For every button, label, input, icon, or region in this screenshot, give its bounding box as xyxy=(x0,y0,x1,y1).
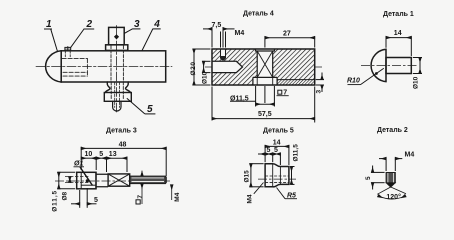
dim 5 left xyxy=(371,166,385,190)
dim Ø11,5 left xyxy=(57,172,75,189)
step line 3mm xyxy=(277,79,315,81)
dim M4 top xyxy=(379,157,402,171)
body cylinder (Деталь 4) xyxy=(61,51,166,82)
set screw item 2 in body top xyxy=(65,47,71,57)
centerline xyxy=(258,178,296,180)
svg-text:Ø15: Ø15 xyxy=(243,170,250,183)
dim Ø20 left xyxy=(193,49,211,85)
svg-text:R10: R10 xyxy=(347,78,360,85)
svg-text:3: 3 xyxy=(315,90,322,94)
dome head R10 xyxy=(371,49,386,81)
svg-text:27: 27 xyxy=(283,30,291,37)
svg-text:Ø10: Ø10 xyxy=(412,76,419,89)
M4 hole outline xyxy=(221,49,226,60)
knob item 5 below body xyxy=(105,82,130,93)
dome end (Деталь 1 head) xyxy=(46,51,62,82)
dim 57,5 bottom xyxy=(212,87,315,123)
svg-text:5: 5 xyxy=(267,147,271,154)
dim Ø11,5 bottom xyxy=(230,86,274,107)
centerline xyxy=(55,180,170,182)
dim Ø11,5 right xyxy=(290,167,294,185)
svg-text:7: 7 xyxy=(137,195,144,199)
dims 5 5 xyxy=(258,153,280,166)
dim Ø8 xyxy=(69,177,71,183)
svg-text:Деталь 5: Деталь 5 xyxy=(263,127,294,134)
svg-text:5: 5 xyxy=(147,104,153,115)
hidden Ø8 hole dashes xyxy=(65,176,89,178)
svg-text:2: 2 xyxy=(86,19,93,30)
threaded end M4 xyxy=(130,176,166,184)
svg-text:Деталь 4: Деталь 4 xyxy=(243,10,274,17)
cone point 120 xyxy=(386,183,395,187)
dim Ø10 right xyxy=(413,58,422,74)
svg-text:M4: M4 xyxy=(405,152,415,159)
threaded body M4 xyxy=(386,173,395,183)
svg-text:10: 10 xyxy=(85,151,93,158)
svg-text:Ø11,5: Ø11,5 xyxy=(230,96,249,103)
dim 5 bottom xyxy=(71,188,97,208)
svg-text:7,5: 7,5 xyxy=(212,22,222,29)
dim 14 top xyxy=(386,36,411,56)
knob outline xyxy=(265,164,289,187)
svg-text:13: 13 xyxy=(109,151,117,158)
dim 27 xyxy=(265,36,315,47)
svg-text:120°: 120° xyxy=(386,193,401,201)
square head item 3 xyxy=(109,27,125,44)
svg-text:1: 1 xyxy=(46,19,52,30)
white: M4 radial hole xyxy=(221,49,226,59)
square section with X xyxy=(108,174,130,186)
svg-text:5: 5 xyxy=(274,147,278,154)
stud below knob xyxy=(113,101,121,111)
svg-text:5: 5 xyxy=(99,151,103,158)
dims top: 7,5 and M4 xyxy=(203,27,235,48)
dim 3 right xyxy=(316,73,324,93)
svg-text:Ø20: Ø20 xyxy=(190,61,197,75)
hidden hole in body (Ø10) xyxy=(62,59,87,77)
head center mark xyxy=(114,34,119,39)
dims 10 5 13 xyxy=(81,157,127,172)
centerline horizontal xyxy=(36,65,172,67)
hatched body section xyxy=(212,49,315,85)
M4 label right xyxy=(171,185,173,200)
120 degree dimension xyxy=(377,187,406,199)
hole depth line xyxy=(80,172,82,189)
svg-text:57,5: 57,5 xyxy=(258,111,272,118)
svg-text:M4: M4 xyxy=(174,192,181,201)
dim Ø15 left xyxy=(249,164,263,187)
dim 14 xyxy=(265,145,289,165)
centerline xyxy=(361,64,417,66)
svg-text:Деталь 2: Деталь 2 xyxy=(377,127,408,134)
svg-text:Ø11,5: Ø11,5 xyxy=(52,190,59,212)
svg-text:Ø10: Ø10 xyxy=(201,71,208,84)
svg-text:3: 3 xyxy=(134,19,140,30)
hidden screw shank in body xyxy=(110,46,112,82)
square7 label bottom xyxy=(136,171,142,204)
svg-text:4: 4 xyxy=(153,19,160,30)
head Ø11,5 xyxy=(77,172,96,189)
white: axial hole Ø10 xyxy=(212,61,243,72)
label square 7 xyxy=(277,90,289,96)
dim 48 xyxy=(81,147,166,176)
dim Ø10 left xyxy=(202,61,211,72)
fine hatch strip bottom right (3mm step) xyxy=(277,80,315,85)
svg-text:5: 5 xyxy=(94,197,98,204)
svg-text:M4: M4 xyxy=(235,30,245,37)
svg-text:48: 48 xyxy=(119,142,127,149)
body outline xyxy=(212,49,315,85)
svg-text:M4: M4 xyxy=(247,194,254,203)
hidden M4 thread hole xyxy=(265,175,289,177)
square hole outline with X xyxy=(253,49,277,85)
white: square hole + recesses xyxy=(256,49,275,51)
cylinder Ø10 xyxy=(386,58,411,74)
svg-text:Деталь 3: Деталь 3 xyxy=(106,127,137,134)
svg-text:Ø11,5: Ø11,5 xyxy=(292,144,299,162)
screw vertical centerline xyxy=(116,26,118,113)
M4 label xyxy=(254,183,264,194)
svg-text:5: 5 xyxy=(365,176,372,180)
svg-text:14: 14 xyxy=(394,30,402,37)
dome junction line xyxy=(60,51,62,82)
neck section xyxy=(96,172,108,189)
flange under head xyxy=(106,45,128,51)
axial hole outline xyxy=(212,61,243,72)
svg-text:7: 7 xyxy=(283,90,287,97)
centerline xyxy=(205,66,322,68)
svg-text:14: 14 xyxy=(273,139,281,146)
hidden thread in knob xyxy=(110,82,112,99)
svg-text:Деталь 1: Деталь 1 xyxy=(383,11,414,18)
svg-text:Ø8: Ø8 xyxy=(62,191,69,200)
